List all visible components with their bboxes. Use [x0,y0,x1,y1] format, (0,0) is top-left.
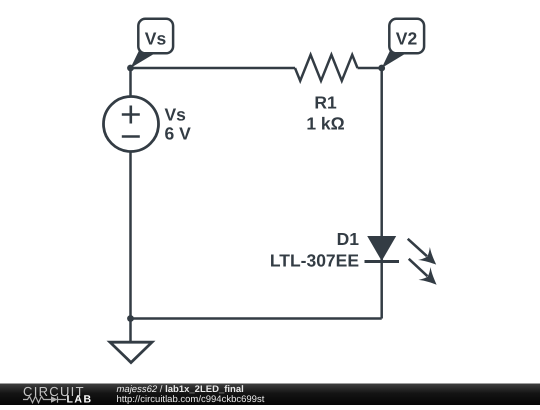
label R1 [314,93,337,113]
svg-text:6 V: 6 V [165,124,192,144]
svg-text:LTL-307EE: LTL-307EE [270,251,359,271]
value label 1 kOhm [306,114,344,134]
svg-text:D1: D1 [337,229,360,249]
ground [110,319,152,363]
node ground dot [127,315,134,322]
label Vs (source name) [165,105,187,125]
wire R1 right lead to node V2 [358,67,382,70]
voltage source VS1 [104,97,159,152]
svg-text:Vs: Vs [165,105,187,125]
footer logo CIRCUIT [23,384,85,399]
resistor R1 [295,55,358,81]
wire bottom horizontal [131,317,382,320]
wire top-left horizontal (node Vs to R1) [131,67,296,70]
footer logo wire-resistor-diode [23,396,66,402]
node label callout Vs [131,19,174,68]
LED D1 emission arrow 1 [402,232,442,271]
footer text line 1: author / title [117,384,244,395]
svg-text:Vs: Vs [145,29,167,49]
wire left rail (node Vs down to VS1 top) [129,68,132,97]
svg-text:V2: V2 [396,29,418,49]
LED D1 emission arrow 2 [403,252,443,291]
svg-text:http://circuitlab.com/c994ckbc: http://circuitlab.com/c994ckbc699st [117,394,265,405]
LED D1 [365,236,400,262]
svg-text:1 kΩ: 1 kΩ [306,114,344,134]
wire right rail (node V2 down through D1 to bottom) [380,68,383,319]
node Vs dot [127,65,134,72]
label D1 [337,229,360,249]
footer bar [0,384,540,406]
footer logo LAB [67,394,93,406]
wire left rail (VS1 bottom down to ground node) [129,152,132,319]
node label callout V2 [382,19,424,68]
svg-text:R1: R1 [314,93,337,113]
node V2 dot [378,65,385,72]
value label LTL-307EE [270,251,359,271]
value label 6 V [165,124,192,144]
footer text line 2: url [117,394,265,405]
svg-text:LAB: LAB [67,394,93,406]
